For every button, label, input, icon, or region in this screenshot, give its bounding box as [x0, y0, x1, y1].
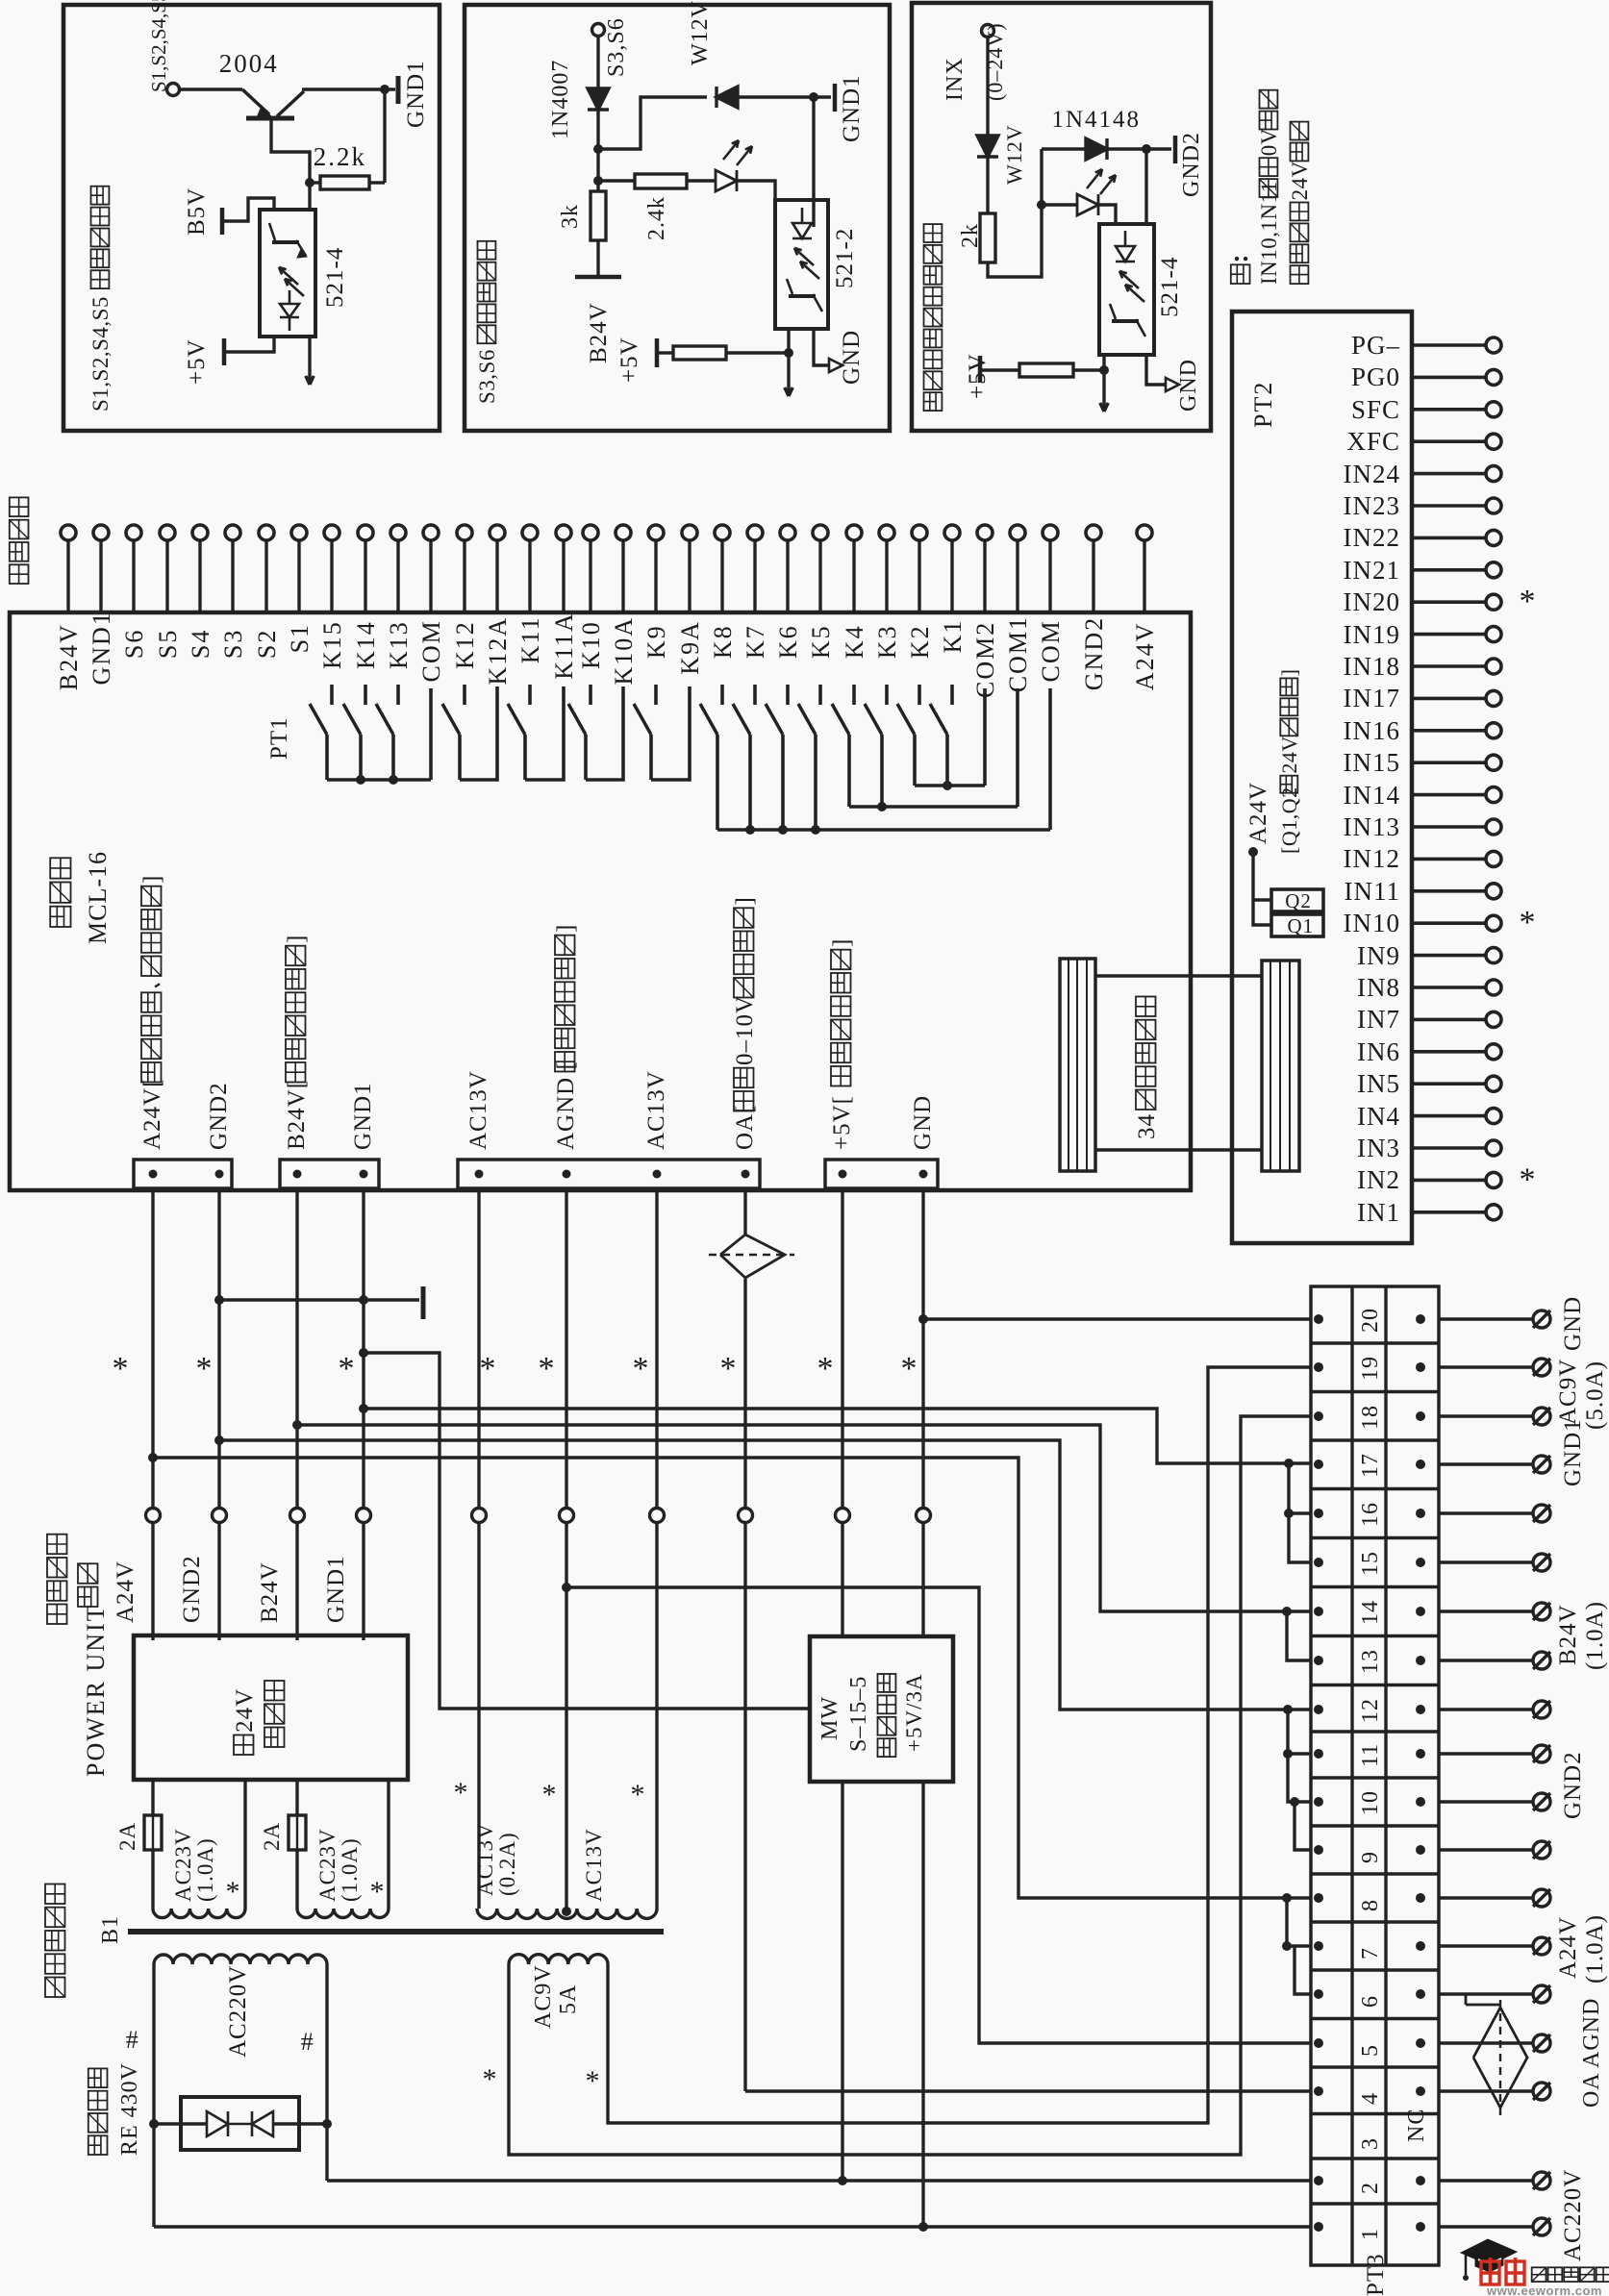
svg-text:IN10: IN10: [1344, 909, 1401, 937]
bus AGND: [566, 1587, 1311, 2043]
pin label K5: [807, 624, 835, 659]
svg-text:GND2: GND2: [179, 1555, 205, 1623]
svg-text:1N4148: 1N4148: [1052, 107, 1142, 133]
pin label K3: [873, 624, 901, 659]
PT3 row 19 number: [1358, 1356, 1383, 1381]
svg-text:*: *: [586, 2065, 600, 2097]
PT3 row 16 external wire: [1439, 1511, 1533, 1514]
wire to GND arrow box3: [1146, 355, 1166, 385]
connector circle AC13V2: [650, 1509, 665, 1523]
terminal K3: [879, 525, 894, 540]
fuse 2A #1: [144, 1815, 162, 1850]
switch contact at x=345: [330, 685, 334, 705]
svg-text:IN9: IN9: [1357, 941, 1400, 970]
block pin: [293, 1170, 302, 1179]
terminal K12A: [490, 525, 505, 540]
pin label COM: [1037, 619, 1065, 682]
terminal K5: [813, 525, 828, 540]
jumper 17-16: [1289, 1463, 1311, 1513]
connector circle +5V: [836, 1509, 850, 1523]
connector circle AGND: [560, 1509, 574, 1523]
external terminal row 5: [1533, 2034, 1550, 2052]
wire PU pin4: [387, 1780, 390, 1909]
svg-text:A24V: A24V: [1555, 1916, 1581, 1979]
label 1.0A right2: [1582, 1914, 1608, 1984]
PT3 row 4 external wire: [1439, 2089, 1533, 2092]
wire GND1 to MW earth: [364, 1353, 810, 1709]
svg-text:2k: 2k: [958, 223, 983, 248]
label OA AGND right: [1579, 1998, 1604, 2108]
svg-text:S3,S6: S3,S6: [604, 17, 629, 77]
svg-text:]: ]: [553, 924, 579, 933]
svg-text:4: 4: [1358, 2092, 1383, 2105]
external terminal row 17: [1533, 1456, 1550, 1473]
wire GND rail: [921, 1188, 924, 1508]
PT3 row 20 number: [1358, 1308, 1383, 1333]
svg-text:]: ]: [284, 935, 310, 943]
svg-text:S–15–5: S–15–5: [846, 1676, 871, 1752]
pin label GND2: [1080, 616, 1108, 690]
svg-text:*: *: [817, 1351, 834, 1386]
svg-text:S1: S1: [286, 623, 314, 653]
label 输入信号电路原理图: [924, 224, 943, 411]
PT3 row 1 pins: [1314, 2222, 1323, 2232]
junction: [356, 775, 365, 785]
label +5V box3: [965, 353, 991, 399]
svg-text:MCL-16: MCL-16: [84, 851, 112, 944]
junction dot: [380, 85, 390, 94]
label GND2 right: [1560, 1751, 1586, 1819]
relay Q1: [1271, 914, 1323, 936]
svg-text:6: 6: [1358, 1995, 1383, 2008]
terminal K9: [648, 525, 664, 540]
wire COM stub: [1016, 688, 1019, 807]
switch contact at x=483: [463, 685, 466, 705]
svg-text:IN17: IN17: [1344, 684, 1401, 712]
svg-text:K2: K2: [906, 624, 934, 659]
wire B24V rail: [295, 1188, 298, 1508]
switch contact at x=551: [528, 685, 532, 705]
rail label GND2: [179, 1555, 205, 1623]
board bottom label AC13V: [643, 1070, 669, 1150]
svg-text:GND1: GND1: [88, 611, 115, 685]
svg-text:]: ]: [829, 938, 855, 947]
label AC220V right: [1560, 2169, 1586, 2261]
varistor diode left: [207, 2111, 228, 2136]
PT3 row 18 pins: [1314, 1411, 1323, 1421]
label 开关电源: [878, 1674, 896, 1757]
watermark graduation cap: [1461, 2239, 1517, 2265]
svg-text:0V: 0V: [1257, 128, 1281, 156]
svg-text:S1,S2,S4,S5: S1,S2,S4,S5: [88, 296, 113, 412]
pin label S3: [219, 629, 247, 659]
PT3 row 15 external wire: [1439, 1560, 1533, 1563]
label 1.0A #1: [193, 1837, 217, 1902]
PT3 row 6 pins: [1314, 1989, 1323, 1999]
svg-text:11: 11: [1358, 1743, 1383, 1767]
svg-text:GND: GND: [1176, 359, 1201, 412]
svg-text:34: 34: [1134, 1113, 1160, 1139]
block pin: [742, 1170, 750, 1179]
svg-text:PT2: PT2: [1249, 381, 1277, 428]
PT3 row 12 number: [1358, 1698, 1383, 1723]
PT3 row 8 number: [1358, 1899, 1383, 1911]
terminal K13: [390, 525, 406, 540]
pin label K2: [906, 624, 934, 659]
wire node to optocoupler pin: [308, 183, 311, 210]
svg-text:PT3: PT3: [1363, 2253, 1389, 2296]
label AC9V: [531, 1964, 556, 2029]
block pin: [215, 1170, 224, 1179]
svg-text:S1,S2,S4,S5: S1,S2,S4,S5: [147, 0, 170, 92]
note line IN10: [1257, 90, 1281, 285]
svg-text:IN7: IN7: [1357, 1005, 1400, 1034]
pin label COM2: [971, 621, 999, 698]
ground GND1 of box1: [385, 87, 395, 90]
terminal S3: [225, 525, 240, 540]
wire A24V rail: [151, 1188, 154, 1508]
external terminal row 20: [1533, 1310, 1550, 1328]
pin label K4: [841, 624, 868, 659]
svg-text:IN12: IN12: [1344, 844, 1401, 873]
resistor +5V box2: [659, 351, 673, 354]
svg-text:14: 14: [1358, 1600, 1383, 1625]
svg-text:IN23: IN23: [1344, 491, 1401, 520]
terminal K6: [780, 525, 795, 540]
zener W12V box3: [977, 136, 998, 157]
wire contact group common: [849, 805, 1018, 809]
rail label B24V: [257, 1561, 283, 1623]
svg-text:W12V: W12V: [688, 0, 713, 65]
wire COM stub: [983, 688, 987, 786]
svg-text:MW: MW: [817, 1696, 842, 1740]
label 521-4 box1: [322, 247, 348, 308]
label A24V right: [1555, 1916, 1581, 1979]
wire input to transistor: [180, 87, 242, 90]
resistor 3k: [596, 181, 599, 191]
terminal K2: [912, 525, 927, 540]
svg-text:IN13: IN13: [1344, 812, 1401, 841]
switch contact at x=956: [918, 685, 921, 705]
svg-text:(5.0A): (5.0A): [1582, 1360, 1608, 1430]
PT3 row 14 number: [1358, 1600, 1383, 1625]
PT3 row 15 pins: [1314, 1558, 1323, 1567]
pin label A24V: [1131, 622, 1159, 691]
svg-text:IN11: IN11: [1345, 877, 1401, 906]
svg-text:1N4007: 1N4007: [548, 60, 573, 139]
PT3 row 12 pins: [1314, 1705, 1323, 1714]
svg-text:16: 16: [1358, 1502, 1383, 1527]
wire GND1 rail: [362, 1188, 365, 1508]
svg-text:A24V: A24V: [113, 1560, 138, 1623]
svg-text:SFC: SFC: [1351, 395, 1400, 424]
svg-text:K8: K8: [709, 624, 737, 659]
PT3 row 2 pins: [1314, 2176, 1323, 2185]
wire 3k to B24V: [596, 240, 599, 275]
label S3,S6电路原理图: [475, 241, 499, 404]
svg-text:*: *: [113, 1351, 129, 1386]
PT3 row 17 number: [1358, 1453, 1383, 1478]
svg-text:Q2: Q2: [1285, 889, 1312, 912]
junction: [389, 775, 398, 785]
terminal S4: [192, 525, 208, 540]
sub-circuit box S3,S6: [465, 5, 890, 431]
bus B24V: [297, 1425, 1311, 1611]
svg-text:521-2: 521-2: [832, 228, 858, 288]
terminal K11: [522, 525, 538, 540]
external terminal row 19: [1533, 1359, 1550, 1376]
svg-text:#: #: [126, 2026, 140, 2054]
bus GND2: [219, 1440, 1311, 1710]
junction dot A24V: [1248, 847, 1258, 857]
label 双24V: [232, 1688, 258, 1755]
svg-text:K1: K1: [939, 619, 967, 654]
PT3 row 20 pins: [1314, 1314, 1323, 1324]
svg-text:www.eeworm.com: www.eeworm.com: [1486, 2284, 1602, 2296]
pin label S6: [120, 629, 148, 659]
terminal K10: [583, 525, 598, 540]
ribbon cable wires: [1095, 974, 1262, 978]
svg-text:Q1: Q1: [1288, 914, 1315, 937]
svg-text:B24V: B24V: [586, 302, 612, 363]
svg-text:IN6: IN6: [1357, 1037, 1400, 1066]
svg-text:*: *: [339, 1351, 355, 1386]
svg-text:K6: K6: [774, 624, 802, 659]
wire B5V to optocoupler: [224, 198, 274, 221]
board bottom label +5V[ 主: [829, 938, 855, 1150]
sub-circuit box S1,S2,S4,S5: [63, 5, 440, 431]
connector block A24V/GND2: [134, 1160, 232, 1188]
block pin: [360, 1170, 368, 1179]
switching supply MW box: [810, 1636, 953, 1782]
pin label K15: [318, 620, 346, 669]
svg-text:17: 17: [1358, 1453, 1383, 1478]
label AC23V #2: [315, 1828, 339, 1902]
junction: [877, 802, 887, 811]
block pin: [149, 1170, 158, 1179]
label GND right: [1560, 1296, 1586, 1351]
PT3 NC label: [1404, 2109, 1429, 2142]
label A24V relay supply: [1245, 782, 1271, 844]
relay Q2: [1271, 889, 1323, 911]
svg-text:7: 7: [1358, 1947, 1383, 1959]
svg-text:+5V/3A: +5V/3A: [902, 1673, 926, 1752]
terminal strip PT3 grid: [1311, 1286, 1439, 2265]
svg-text:GND1: GND1: [350, 1082, 376, 1150]
label GND box3: [1176, 359, 1201, 412]
svg-text:GND1: GND1: [1560, 1418, 1586, 1486]
PT3 row 9 number: [1358, 1851, 1383, 1863]
wire AC9V right: [608, 1367, 1311, 2123]
pin label K8: [709, 624, 737, 659]
wire 2.4k to LED: [687, 179, 716, 182]
board bottom label OA[输出0: [732, 896, 758, 1150]
PT3 row 9 pins: [1314, 1845, 1323, 1855]
jumper 8-7: [1287, 1898, 1311, 1946]
svg-text:K14: K14: [352, 620, 380, 669]
terminal K12: [457, 525, 472, 540]
svg-text:IN24: IN24: [1344, 460, 1401, 488]
external terminal row 7: [1533, 1937, 1550, 1955]
connector circle AC13V: [472, 1509, 487, 1523]
wire contact pair: [651, 686, 690, 780]
switch contact at x=853: [818, 685, 822, 705]
jumper 16-15: [1289, 1513, 1311, 1562]
svg-text:]: ]: [139, 875, 165, 884]
svg-text:12: 12: [1358, 1698, 1383, 1723]
terminal K14: [358, 525, 373, 540]
svg-text:K9: K9: [642, 624, 670, 659]
input terminal INX: [982, 25, 994, 37]
label 521-4 box3: [1157, 257, 1183, 317]
label AC23V #1: [171, 1828, 195, 1902]
svg-text:13: 13: [1358, 1649, 1383, 1674]
svg-text:COM: COM: [1037, 619, 1065, 682]
pin label COM: [417, 619, 445, 682]
svg-text:NC: NC: [1404, 2109, 1429, 2142]
wire opto to node: [1102, 355, 1105, 370]
PT3 row 11 external wire: [1439, 1752, 1533, 1755]
wire base to node: [271, 120, 310, 183]
winding AC9V: [509, 1955, 608, 1964]
svg-text:K13: K13: [385, 620, 413, 669]
rail label A24V: [113, 1560, 138, 1623]
svg-text:*: *: [631, 1779, 645, 1810]
terminal A24V: [1137, 525, 1152, 540]
label 1N4148: [1052, 107, 1142, 133]
wire INX down: [986, 37, 989, 136]
svg-text:*: *: [633, 1351, 649, 1386]
ground GND2 box3: [1146, 147, 1171, 150]
wire A24V to relays: [1253, 852, 1271, 925]
svg-text:5: 5: [1358, 2044, 1383, 2057]
svg-text:IN20: IN20: [1344, 587, 1401, 616]
external terminal row 8: [1533, 1889, 1550, 1907]
svg-text:2A: 2A: [115, 1822, 139, 1851]
transistor 2004: [242, 89, 269, 114]
junction dot box3 out: [1099, 365, 1109, 375]
svg-text:GND2: GND2: [1080, 616, 1108, 690]
svg-text:*: *: [720, 1351, 737, 1386]
junction dot GND1 node box2: [809, 92, 818, 102]
wire AC220V right: [325, 1964, 328, 2181]
svg-text:GND1: GND1: [839, 74, 865, 142]
label 电源变压器: [45, 1884, 65, 1998]
terminal K9A: [682, 525, 697, 540]
svg-text:S5: S5: [154, 629, 182, 659]
svg-text:0–10V: 0–10V: [732, 995, 758, 1065]
svg-text:PG–: PG–: [1351, 331, 1400, 360]
PT3 row 4 number: [1358, 2092, 1383, 2105]
pin label S2: [253, 629, 281, 659]
junction: [778, 825, 788, 835]
connector circle GND1: [357, 1509, 371, 1523]
chassis ground bar: [421, 1286, 426, 1319]
junction dot node2: [593, 176, 603, 186]
svg-text:B24V: B24V: [55, 623, 83, 690]
label 1.0A right: [1582, 1601, 1608, 1670]
svg-text:24V: 24V: [1288, 161, 1312, 200]
svg-text:IN3: IN3: [1357, 1134, 1400, 1162]
wire A24V below circle: [151, 1523, 154, 1640]
pin label K10A: [610, 616, 638, 686]
note 注: [1231, 257, 1250, 284]
watermark 虫虫 red: [1481, 2258, 1499, 2284]
winding AC13V pair: [477, 1909, 657, 1918]
pin label K12A: [484, 616, 512, 686]
svg-text:IN21: IN21: [1344, 556, 1401, 585]
note line others: [1288, 122, 1312, 285]
fuse 2A #2: [289, 1815, 306, 1850]
PT3 row 14 external wire: [1439, 1610, 1533, 1612]
label 2004: [219, 49, 279, 78]
label MW: [817, 1696, 842, 1740]
connector circle GND: [917, 1509, 931, 1523]
junction dot LED node: [1037, 200, 1046, 210]
wire AC13V2 rail: [655, 1188, 658, 1508]
pin label K11: [516, 615, 544, 663]
svg-text:*: *: [1520, 1161, 1536, 1197]
svg-text:IN16: IN16: [1344, 716, 1401, 745]
svg-text:PG0: PG0: [1351, 362, 1400, 391]
PT3 row 7 pins: [1314, 1941, 1323, 1951]
PT3 row 8 pins: [1314, 1893, 1323, 1903]
svg-text:K7: K7: [742, 624, 769, 659]
svg-text:B24V[: B24V[: [284, 1080, 310, 1150]
PT3 row 16 pins: [1314, 1509, 1323, 1518]
svg-text:2A: 2A: [260, 1822, 284, 1851]
winding AC23V #1: [153, 1909, 245, 1918]
bus GND to PT3 pin20: [923, 1317, 1311, 1320]
PT3 row 17 pins: [1314, 1460, 1323, 1469]
wire COM stub: [1048, 688, 1052, 830]
PT3 row 5 external wire: [1439, 2041, 1533, 2044]
svg-text:*: *: [1520, 905, 1536, 940]
wire W12V to GND1 node: [738, 95, 814, 98]
main board MCL-16 box: [10, 612, 1191, 1190]
rectifier label 电路: [78, 1563, 98, 1607]
svg-text:K11: K11: [516, 615, 544, 663]
terminal K15: [324, 525, 339, 540]
PT3 row 13 pins: [1314, 1656, 1323, 1665]
label AC13V 0.2A: [473, 1822, 497, 1896]
wire to GND open arrow: [814, 329, 829, 365]
input terminal S1,S2,S4,S5: [167, 84, 180, 96]
PT3 row 1 external wire: [1439, 2225, 1533, 2228]
junction dot base node: [305, 178, 314, 187]
label MCL-16: [84, 851, 112, 944]
wire PU pin1: [151, 1780, 154, 1815]
hash marks: [126, 2026, 140, 2054]
diode 1N4148: [1042, 147, 1085, 150]
svg-text:*: *: [539, 1351, 555, 1386]
svg-text:5A: 5A: [556, 1984, 581, 2014]
svg-text:GND1: GND1: [403, 60, 429, 128]
svg-text:+5V: +5V: [184, 338, 210, 385]
rail label GND1: [323, 1555, 349, 1623]
svg-text:24V: 24V: [232, 1688, 258, 1733]
external terminal row 18: [1533, 1408, 1550, 1425]
PT3 row 17 external wire: [1439, 1462, 1533, 1465]
wire COM stub: [429, 688, 433, 780]
svg-text:IN4: IN4: [1357, 1102, 1400, 1131]
PT3 row 7 external wire: [1439, 1944, 1533, 1947]
connector block +5V/GND: [825, 1160, 938, 1188]
label S1,S2,S4,S5电路原理图: [88, 187, 113, 412]
svg-text:+5V[: +5V[: [829, 1095, 855, 1150]
svg-text:A24V: A24V: [1245, 782, 1271, 844]
junction dot GND2 node: [1142, 144, 1151, 154]
